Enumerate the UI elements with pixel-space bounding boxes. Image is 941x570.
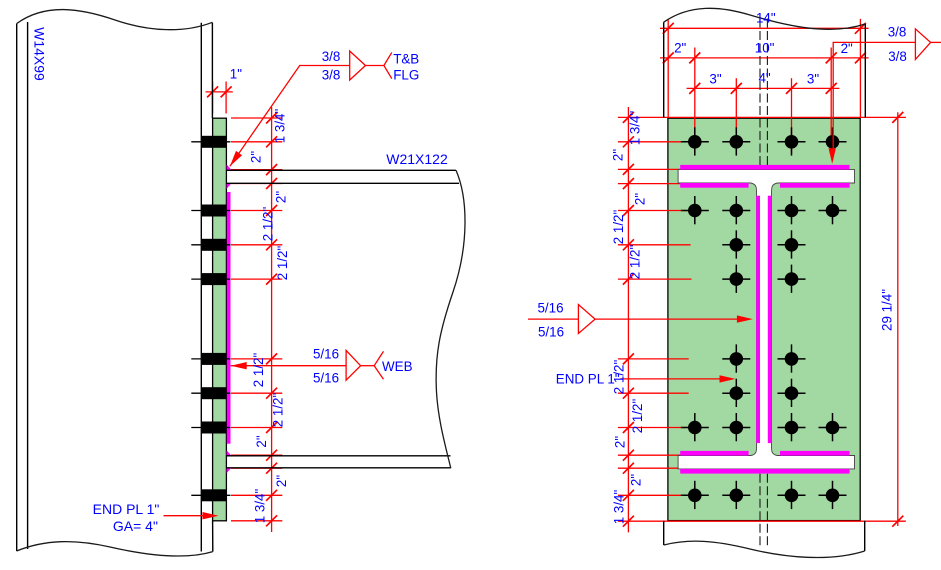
- bolt H2: [722, 481, 750, 509]
- svg-text:3": 3": [807, 71, 819, 86]
- face view top break line: [664, 8, 866, 29]
- left view chain ticks: [266, 113, 277, 527]
- bolt B4: [819, 196, 847, 224]
- bolt H3: [778, 481, 806, 509]
- svg-text:2": 2": [249, 151, 264, 163]
- weld symbol 5/16 WEB arrowhead: [231, 362, 247, 369]
- web weld line right (face view): [768, 196, 772, 443]
- svg-text:GA= 4": GA= 4": [113, 518, 158, 534]
- web weld band (magenta) elevation: [227, 192, 231, 444]
- bolt F2: [722, 379, 750, 407]
- weld fillet triangle below top flange: [227, 183, 232, 189]
- weld symbol 5/16 flag triangle (face view): [578, 305, 595, 334]
- right view chain ticks: [623, 112, 634, 527]
- column W14X99 right flange outer line: [211, 23, 213, 119]
- bolt E3: [778, 344, 806, 372]
- bolt D2: [722, 265, 750, 293]
- weld fillet triangle below bottom flange: [227, 468, 232, 474]
- svg-text:5/16: 5/16: [313, 370, 339, 385]
- bolt row E (elevation): [191, 353, 230, 365]
- svg-text:3/8: 3/8: [888, 49, 907, 64]
- svg-text:2 1/2": 2 1/2": [261, 206, 276, 241]
- dimension 1" ticks: [207, 86, 218, 97]
- svg-text:2 1/2": 2 1/2": [612, 359, 627, 394]
- svg-text:1 3/4": 1 3/4": [612, 489, 627, 524]
- bolt A4: [819, 127, 847, 155]
- web hidden centerline right (dashed) lower: [766, 474, 768, 549]
- top flange weld bottom band left: [680, 183, 748, 188]
- svg-text:W14X99: W14X99: [31, 27, 47, 81]
- dimension 2"-10"-2" line: [660, 57, 869, 59]
- weld fillet (magenta) elevation: triangle above top flange: [227, 164, 232, 169]
- bolt A3: [778, 127, 806, 155]
- end plate leader arrowhead (elevation): [203, 512, 219, 519]
- svg-text:2": 2": [674, 41, 686, 56]
- left view chain extension lines: [231, 118, 282, 521]
- weld symbol 3/8 T&B FLG leader: [230, 66, 350, 167]
- end plate PL1 elevation (green, left view): [213, 118, 227, 521]
- right view left dimension chain line: [627, 107, 629, 532]
- bottom flange weld top band right: [780, 451, 850, 456]
- weld symbol 3/8 tail line (face view): [931, 41, 941, 43]
- column W14X99 left flange outer line: [16, 24, 18, 552]
- svg-text:2 1/2": 2 1/2": [628, 244, 643, 279]
- web hidden centerline right (dashed) upper: [766, 19, 768, 166]
- web weld line left (face view): [756, 196, 760, 443]
- svg-text:2 1/2": 2 1/2": [611, 209, 626, 244]
- top flange weld top band (magenta): [680, 165, 849, 170]
- svg-text:5/16: 5/16: [313, 347, 339, 362]
- top flange weld bottom band right: [780, 183, 850, 188]
- svg-text:1 3/4": 1 3/4": [628, 110, 643, 145]
- svg-text:14": 14": [756, 11, 776, 26]
- bolt B1: [681, 196, 709, 224]
- svg-text:2": 2": [629, 474, 644, 486]
- bolt G4: [819, 413, 847, 441]
- bolt H4: [819, 481, 847, 509]
- svg-text:FLG: FLG: [393, 68, 419, 83]
- beam W21X122 top flange bottom line: [227, 182, 460, 184]
- column face view left edge lower: [663, 521, 665, 545]
- bolt row A (elevation): [191, 136, 230, 148]
- beam W21X122 bottom flange top line: [227, 455, 451, 457]
- bolt F3: [778, 379, 806, 407]
- column top break line: [17, 10, 213, 30]
- bolt G3: [778, 413, 806, 441]
- weld symbol 5/16 flag triangle: [346, 350, 361, 380]
- end plate leader (elevation): [164, 515, 205, 517]
- weld symbol 5/16 arrowhead (face view): [737, 315, 753, 322]
- beam W21X122 bottom flange bottom line: [227, 467, 451, 469]
- weld fillet triangle above bottom flange: [227, 450, 232, 455]
- weld symbol 3/8 leader (face view): [833, 42, 915, 150]
- bolt B3: [778, 196, 806, 224]
- bolt C3: [778, 230, 806, 258]
- svg-text:5/16: 5/16: [537, 301, 563, 316]
- svg-text:2 1/2": 2 1/2": [251, 352, 266, 387]
- svg-text:2": 2": [633, 193, 648, 205]
- bolt A1: [681, 127, 709, 155]
- svg-text:3/8: 3/8: [322, 68, 341, 83]
- column face view right edge line: [864, 24, 866, 118]
- svg-text:END PL 1": END PL 1": [93, 501, 160, 517]
- bottom flange weld top band left: [680, 451, 748, 456]
- bolt G2: [722, 413, 750, 441]
- left view dimension chain line: [271, 107, 273, 532]
- column bottom break line: [17, 542, 213, 556]
- weld symbol 5/16 leader (face view): [595, 318, 738, 320]
- svg-text:2": 2": [611, 149, 626, 161]
- dimension 14" line: [660, 27, 869, 29]
- web hidden centerline left (dashed) upper: [759, 19, 761, 166]
- right view chain extension lines: [618, 117, 906, 521]
- top dimension ticks: [663, 23, 866, 94]
- bolt row G (elevation): [191, 422, 230, 434]
- end plate leader arrowhead (face view): [720, 375, 736, 382]
- top dimension extension verticals: [668, 19, 860, 154]
- bolt E2: [722, 344, 750, 372]
- weld symbol 5/16 tail (face view): [528, 318, 578, 320]
- svg-text:2": 2": [254, 435, 269, 447]
- bolt A2: [722, 127, 750, 155]
- svg-text:END PL 1": END PL 1": [556, 371, 620, 386]
- end plate leader (face view): [620, 378, 721, 380]
- weld symbol 5/16 WEB leader: [231, 365, 346, 367]
- svg-text:2": 2": [841, 41, 853, 56]
- weld symbol 5/16 tail line: [361, 365, 375, 367]
- beam W21X122 cross-section (white I-shape): [678, 170, 854, 469]
- svg-text:4": 4": [758, 70, 770, 85]
- dimension 29 1/4" ticks: [892, 112, 903, 123]
- weld symbol 5/16 fork: [374, 351, 383, 379]
- svg-text:2 1/2": 2 1/2": [275, 245, 290, 280]
- column W14X99 right flange inner line: [200, 23, 202, 552]
- svg-text:5/16: 5/16: [538, 325, 564, 340]
- svg-text:2 1/2": 2 1/2": [271, 392, 286, 427]
- end plate PL1 face view (green, right view): [668, 118, 860, 520]
- column face view right edge lower: [864, 521, 866, 551]
- svg-text:1 3/4": 1 3/4": [273, 108, 288, 143]
- column face view left edge line: [663, 22, 665, 118]
- svg-text:1": 1": [230, 67, 242, 82]
- svg-text:1 3/4": 1 3/4": [253, 488, 268, 523]
- column W14X99 left flange inner line: [27, 22, 29, 549]
- bolt row C (elevation): [191, 239, 230, 251]
- weld symbol 3/8 arrowhead (face view): [829, 148, 836, 164]
- svg-text:10": 10": [755, 41, 775, 56]
- svg-text:WEB: WEB: [382, 359, 413, 374]
- svg-text:3/8: 3/8: [888, 25, 907, 40]
- dimension 1" plate thickness: extension lines: [206, 82, 233, 114]
- beam W21X122 top flange top line: [227, 169, 457, 171]
- svg-text:W21X122: W21X122: [386, 151, 448, 167]
- bottom flange weld bottom band (magenta): [680, 469, 849, 474]
- bolt row D (elevation): [191, 273, 230, 285]
- bolt row F (elevation): [191, 387, 230, 399]
- svg-text:2": 2": [274, 191, 289, 203]
- svg-text:3": 3": [709, 71, 721, 86]
- dimension 3"-4"-3" line: [687, 87, 840, 89]
- bolt B2: [722, 196, 750, 224]
- dimension 29 1/4" chain line (right side): [897, 112, 899, 526]
- bolt C2: [722, 230, 750, 258]
- bolt G1: [681, 413, 709, 441]
- weld symbol 3/8 flag triangle (face view): [915, 29, 930, 60]
- bolt row H (elevation): [191, 489, 230, 501]
- bolt H1: [681, 481, 709, 509]
- bolt row B (elevation): [191, 205, 230, 217]
- weld symbol 3/8 tail line: [366, 65, 384, 67]
- web hidden centerline left (dashed) lower: [759, 474, 761, 549]
- weld symbol 3/8 T&B FLG arrowhead: [230, 151, 242, 166]
- weld symbol 3/8 fork: [384, 52, 392, 78]
- svg-text:3/8: 3/8: [322, 49, 341, 64]
- svg-text:T&B: T&B: [393, 52, 419, 67]
- svg-text:29 1/4": 29 1/4": [880, 289, 895, 331]
- svg-text:2 1/2": 2 1/2": [630, 398, 645, 433]
- weld symbol 3/8 flag triangle: [350, 51, 366, 80]
- svg-text:2": 2": [613, 436, 628, 448]
- beam break S-curve: [436, 170, 465, 468]
- column W14X99 right flange outer line lower segment: [212, 521, 214, 552]
- bolt D3: [778, 265, 806, 293]
- face view bottom break line: [664, 541, 865, 557]
- svg-text:2": 2": [274, 475, 289, 487]
